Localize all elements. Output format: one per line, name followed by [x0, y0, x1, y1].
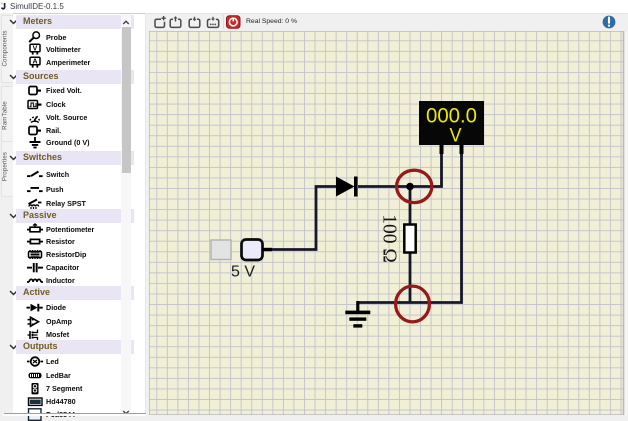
- voltmeter probe ring (bottom): [396, 286, 430, 322]
- voltmeter reading 000.0: [426, 105, 477, 146]
- wire: diode cathode to junction node: [358, 185, 410, 188]
- voltmeter probe ring (top, at junction): [397, 170, 432, 202]
- fixed voltage source V1 toggle button: [211, 240, 231, 260]
- wire: resistor bottom into lower probe: [409, 252, 412, 303]
- power button: [226, 15, 241, 29]
- ground symbol pin: [356, 301, 359, 311]
- left vertical tab strip: [0, 13, 13, 415]
- toolbar: open circuit button: [169, 15, 182, 29]
- window title text: [10, 2, 64, 11]
- ground symbol bars: [345, 311, 370, 315]
- component tree panel: [13, 13, 146, 415]
- fixed voltage source V1 output pin: [263, 248, 273, 251]
- voltmeter right pin: [460, 145, 464, 154]
- voltmeter M1 display body: [419, 101, 484, 145]
- info icon: [602, 15, 616, 29]
- diode D1 triangle: [336, 177, 355, 197]
- svg-text:100 Ω: 100 Ω: [379, 214, 400, 263]
- toolbar: save circuit button: [188, 15, 201, 29]
- real speed text: [246, 18, 297, 25]
- svg-text:A: A: [32, 58, 37, 65]
- svg-text:V: V: [450, 124, 462, 146]
- voltmeter left pin: [440, 145, 444, 154]
- diode D1 cathode bar: [354, 177, 358, 197]
- toolbar separator: [223, 15, 224, 29]
- toolbar: new circuit button: [153, 15, 167, 29]
- window title bar: [0, 0, 628, 14]
- svg-text:V: V: [33, 46, 38, 53]
- right window margin strip: [624, 31, 628, 415]
- wire: junction to voltmeter left pin: [410, 152, 442, 187]
- wire: junction down to resistor top: [409, 187, 412, 226]
- svg-text:5 V: 5 V: [231, 264, 255, 281]
- panel scrollbar: [121, 14, 131, 411]
- white cover under tree frame: [3, 414, 146, 416]
- toolbar: save as button: [206, 15, 220, 29]
- junction node dot: [406, 183, 414, 191]
- resistor R1 body: [404, 225, 415, 253]
- fixed voltage source V1 body: [242, 240, 263, 261]
- wire: voltmeter right pin down and across to ground: [358, 152, 462, 303]
- circuit canvas: [149, 31, 624, 415]
- wire: source to diode (up then right): [271, 187, 336, 250]
- app icon: [1, 2, 7, 10]
- tree widget bottom frame line: [4, 413, 146, 414]
- grid background: [149, 31, 624, 415]
